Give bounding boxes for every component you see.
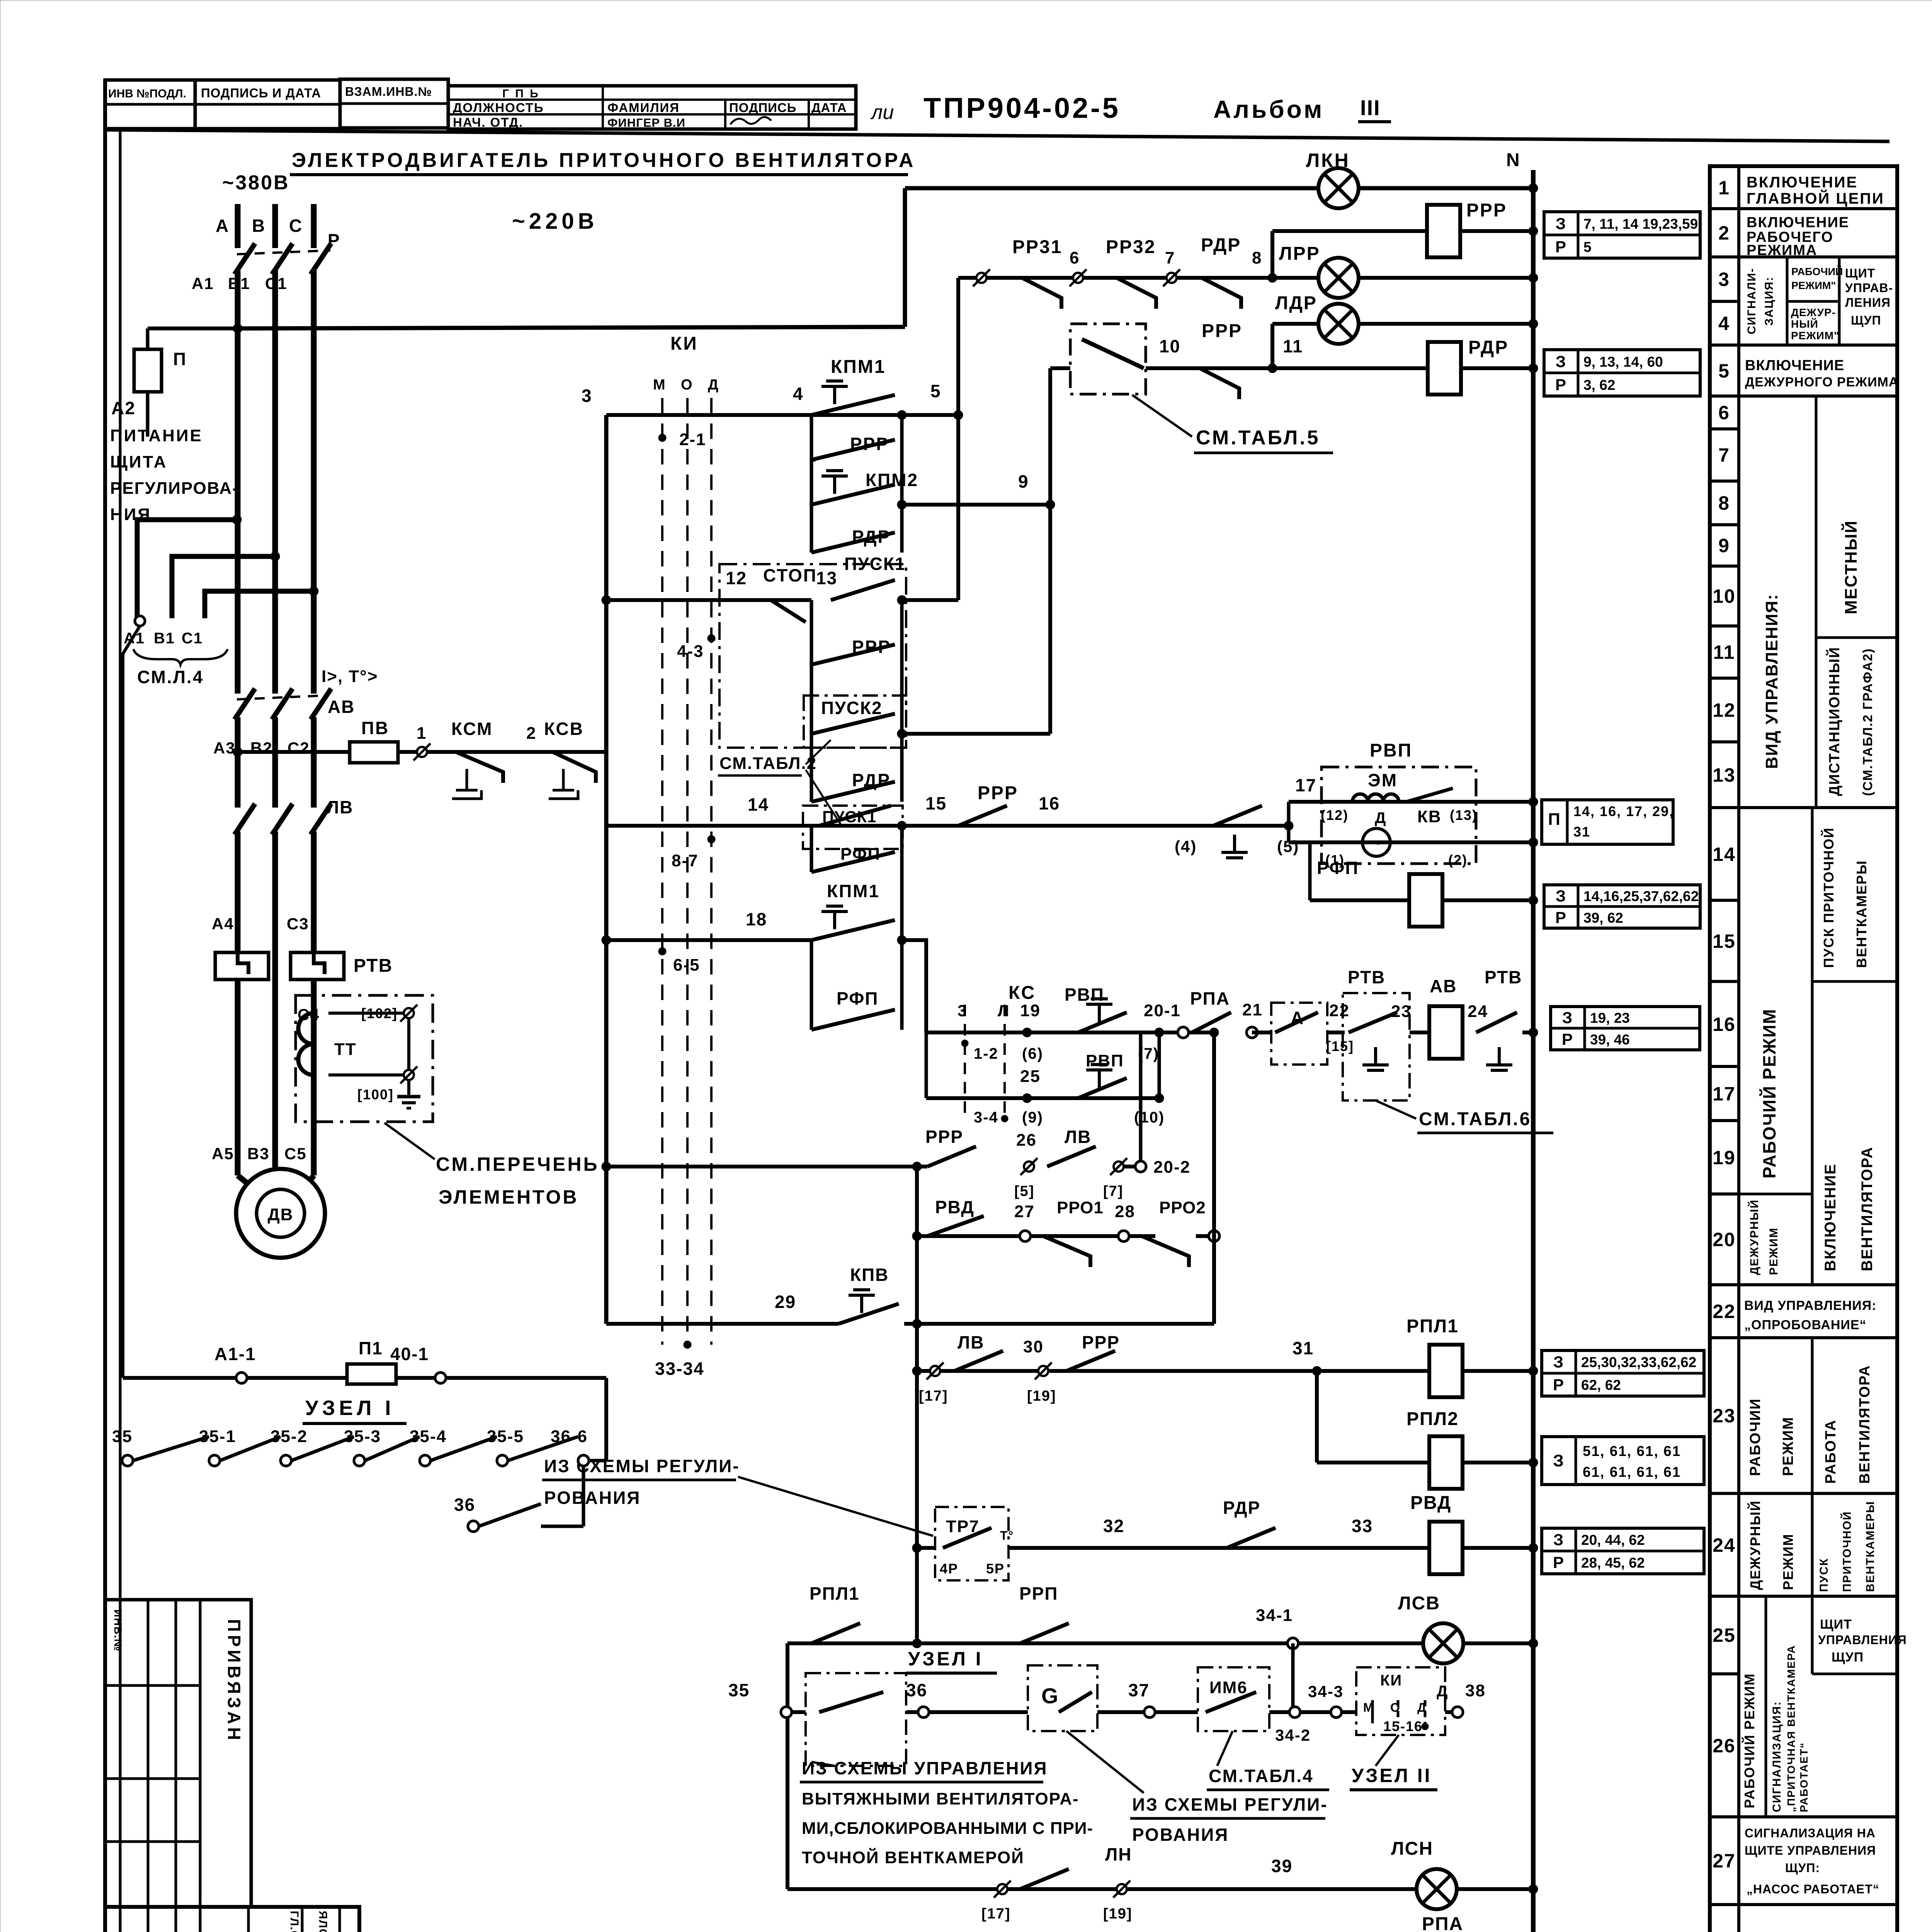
- svg-text:А4: А4: [212, 915, 234, 933]
- phase C line: [311, 270, 317, 694]
- svg-text:Р: Р: [1553, 1376, 1565, 1394]
- svg-text:16: 16: [1039, 793, 1060, 813]
- узел2 М tick: [1371, 1700, 1374, 1723]
- wire row 34-1: [787, 1641, 1533, 1645]
- pushbutton КПВ: [860, 1295, 863, 1313]
- svg-text:ВЕНТИЛЯТОРА: ВЕНТИЛЯТОРА: [1857, 1365, 1873, 1484]
- svg-text:[102]: [102]: [361, 1005, 398, 1021]
- wire row 14: [606, 824, 1289, 828]
- wire row ПУСК2 right: [902, 732, 1050, 736]
- sig rows14-20 block: [1739, 1283, 1897, 1286]
- svg-text:РВД: РВД: [935, 1197, 975, 1217]
- signal table row 12 divider and number: [1710, 677, 1739, 680]
- svg-text:ВКЛЮЧЕНИЕ: ВКЛЮЧЕНИЕ: [1745, 357, 1844, 374]
- wire row СТОП right: [902, 598, 958, 602]
- svg-text:М: М: [1363, 1701, 1374, 1714]
- wire row СТОП: [606, 598, 811, 602]
- junction N ЛРР: [1529, 273, 1538, 282]
- svg-text:ИЗ СХЕМЫ УПРАВЛЕНИЯ: ИЗ СХЕМЫ УПРАВЛЕНИЯ: [802, 1758, 1048, 1778]
- contact РРР 10-11: [1200, 368, 1239, 399]
- junction N РФП: [1529, 896, 1538, 905]
- svg-text:35-1: 35-1: [199, 1427, 236, 1446]
- wire 26 to 20-2: [1124, 1165, 1141, 1168]
- svg-text:9: 9: [1718, 535, 1730, 556]
- svg-text:ЩУП:: ЩУП:: [1785, 1861, 1820, 1875]
- signal table row 17 divider and number: [1710, 1065, 1739, 1068]
- dash box ПУСК1 второй: [803, 806, 903, 849]
- КСВ bracket symbol: [549, 769, 578, 799]
- svg-text:ДАТА: ДАТА: [811, 100, 847, 115]
- contact ПУСК2: [811, 714, 895, 734]
- current transformer box: [296, 995, 433, 1122]
- junction row18: [897, 935, 906, 945]
- svg-text:4Р: 4Р: [940, 1561, 958, 1577]
- svg-text:ВКЛЮЧЕНИЕ: ВКЛЮЧЕНИЕ: [1747, 214, 1849, 231]
- svg-text:15: 15: [925, 793, 947, 813]
- contact РРР loop1: [811, 440, 895, 460]
- svg-text:СТОП: СТОП: [763, 565, 817, 585]
- wire ЭМ line: [1289, 800, 1533, 804]
- terminal [7]: [1114, 1162, 1124, 1172]
- svg-text:9, 13, 14, 60: 9, 13, 14, 60: [1583, 354, 1663, 370]
- loop riser ПУСК2: [810, 665, 813, 734]
- junction N AKN: [1529, 184, 1538, 193]
- svg-text:РОВАНИЯ: РОВАНИЯ: [1132, 1825, 1229, 1845]
- svg-text:ВКЛЮЧЕНИЕ: ВКЛЮЧЕНИЕ: [1747, 174, 1858, 191]
- svg-text:(4): (4): [1175, 837, 1197, 855]
- wire riser 9 down: [1048, 505, 1052, 734]
- bus 3 left rail: [604, 415, 609, 1324]
- chain terminal 36-6: [578, 1455, 589, 1466]
- signal table row 22 divider and number: [1710, 1283, 1739, 1286]
- svg-text:(10): (10): [1134, 1109, 1165, 1126]
- svg-text:ПУСК ПРИТОЧНОЙ: ПУСК ПРИТОЧНОЙ: [1820, 827, 1837, 968]
- svg-text:35: 35: [728, 1680, 750, 1700]
- terminal 34-1: [1287, 1638, 1298, 1649]
- wire riser 341 left: [786, 1643, 789, 1889]
- svg-text:39, 62: 39, 62: [1583, 910, 1623, 926]
- terminal [19] row39: [1117, 1884, 1127, 1894]
- узел2 О tick: [1397, 1700, 1400, 1723]
- stamp verticals: [147, 1907, 150, 1932]
- svg-text:КПМ1: КПМ1: [827, 881, 880, 901]
- svg-text:[5]: [5]: [1014, 1183, 1034, 1199]
- svg-text:А2: А2: [111, 398, 136, 418]
- fuse П branch wire upper: [146, 328, 150, 349]
- svg-text:ЛСН: ЛСН: [1391, 1838, 1433, 1859]
- tap line 3: [205, 591, 314, 618]
- svg-text:Р: Р: [1555, 238, 1567, 256]
- svg-text:ЛВ: ЛВ: [327, 797, 354, 817]
- svg-text:РДР: РДР: [1468, 337, 1509, 358]
- svg-text:С: С: [289, 216, 303, 236]
- sig row2 box: [1739, 255, 1897, 259]
- dash box А: [1271, 1003, 1327, 1065]
- terminal 34-2: [1289, 1707, 1300, 1718]
- terminal 26: [1024, 1162, 1034, 1172]
- pushbutton КПМ1 row18: [833, 912, 836, 929]
- svg-text:(2): (2): [1448, 852, 1468, 868]
- fuse ПВ: [350, 742, 398, 763]
- header box ВЗАМ.ИНВ.№: [340, 79, 448, 128]
- svg-text:В1: В1: [154, 630, 175, 647]
- junction N ЛВ: [1529, 1028, 1538, 1037]
- wire riser 11 to ЛДР: [1270, 324, 1274, 368]
- wire row 39: [787, 1887, 1533, 1891]
- svg-text:Д: Д: [1417, 1701, 1427, 1714]
- svg-text:ПОДПИСЬ: ПОДПИСЬ: [729, 100, 796, 115]
- wire row ПВ КСМ КСВ: [238, 750, 606, 754]
- contact ЛН: [1020, 1869, 1069, 1889]
- svg-text:РАБОЧИЙ РЕЖИМ: РАБОЧИЙ РЕЖИМ: [1759, 1009, 1779, 1179]
- svg-text:ФАМИЛИЯ: ФАМИЛИЯ: [607, 100, 680, 115]
- svg-text:РРО2: РРО2: [1159, 1198, 1206, 1217]
- ref table row15 З/Р: [1544, 885, 1700, 928]
- loop РРР row4: [810, 415, 813, 460]
- svg-text:ВЕНТИЛЯТОРА: ВЕНТИЛЯТОРА: [1859, 1146, 1876, 1271]
- svg-text:22: 22: [1713, 1301, 1736, 1322]
- svg-text:39: 39: [1271, 1856, 1293, 1876]
- bus N: [1531, 170, 1536, 1932]
- svg-text:(12): (12): [1321, 807, 1349, 823]
- svg-text:6: 6: [1070, 248, 1080, 267]
- relay coil РПЛ1: [1429, 1345, 1463, 1397]
- svg-text:М: М: [653, 377, 666, 393]
- svg-text:РР31: РР31: [1012, 237, 1062, 257]
- wire row 32: [917, 1546, 1533, 1550]
- svg-text:ЯЛОВЕЦКИЙ: ЯЛОВЕЦКИЙ: [316, 1911, 330, 1932]
- stamp main table: [105, 1907, 359, 1932]
- svg-text:ПВ: ПВ: [361, 718, 389, 738]
- contact G: [1059, 1692, 1092, 1712]
- ЛВ blade B: [272, 804, 293, 835]
- chain contact after 35-4: [430, 1437, 497, 1461]
- svg-text:ПУСК2: ПУСК2: [821, 698, 883, 718]
- note УЗЕЛ II: [1376, 1735, 1399, 1766]
- contact ПУСК1 второй: [819, 806, 891, 826]
- breaker blade A: [235, 243, 255, 274]
- chain terminal 35-1: [209, 1455, 220, 1466]
- terminal 36: [918, 1707, 929, 1718]
- svg-text:23: 23: [1713, 1405, 1736, 1427]
- svg-text:ИЗ СХЕМЫ РЕГУЛИ-: ИЗ СХЕМЫ РЕГУЛИ-: [544, 1456, 740, 1476]
- wire riser 2373: [915, 1167, 919, 1643]
- svg-text:РОВАНИЯ: РОВАНИЯ: [544, 1488, 641, 1508]
- sig rows3-4 block: [1739, 344, 1897, 347]
- svg-text:14: 14: [1713, 844, 1736, 865]
- contact РДР: [1202, 278, 1241, 309]
- relay coil РФП: [1409, 874, 1442, 927]
- wire row 18: [606, 938, 811, 942]
- signal table frame: [1710, 166, 1897, 1932]
- svg-text:ГЛ.СПЕЦ.: ГЛ.СПЕЦ.: [288, 1911, 301, 1932]
- TT primary loops: [298, 1013, 314, 1075]
- leader СМ.ТАБЛ.2 b: [806, 770, 842, 827]
- wire РФП drop: [1308, 842, 1312, 900]
- svg-text:КПМ1: КПМ1: [831, 357, 886, 377]
- svg-text:[19]: [19]: [1027, 1388, 1056, 1404]
- timer РВП contact row14: [1233, 835, 1236, 852]
- svg-text:РАБОТАЕТ“: РАБОТАЕТ“: [1798, 1742, 1810, 1812]
- svg-text:ЩУП: ЩУП: [1832, 1650, 1864, 1665]
- svg-text:2: 2: [1718, 222, 1730, 244]
- svg-text:19: 19: [1713, 1147, 1736, 1168]
- TT secondary wire upper: [328, 1012, 409, 1015]
- svg-text:35-2: 35-2: [270, 1427, 308, 1446]
- signal table row 16 divider and number: [1710, 980, 1739, 983]
- signal table row 25 divider and number: [1710, 1595, 1739, 1598]
- dashed line Д: [710, 398, 713, 1345]
- wire row 4: [606, 413, 958, 417]
- svg-text:G: G: [1041, 1684, 1059, 1708]
- svg-text:31: 31: [1293, 1338, 1314, 1358]
- junction 17: [1284, 821, 1293, 830]
- svg-text:А5: А5: [212, 1145, 234, 1163]
- chain terminal 35-2: [281, 1455, 291, 1466]
- svg-text:25,30,32,33,62,62: 25,30,32,33,62,62: [1581, 1354, 1696, 1370]
- svg-text:РПА: РПА: [1190, 988, 1230, 1009]
- phase C line 2: [311, 717, 317, 808]
- svg-text:11: 11: [1283, 336, 1303, 356]
- svg-text:1: 1: [1718, 177, 1730, 199]
- svg-text:ДВ: ДВ: [267, 1205, 293, 1224]
- svg-text:33-34: 33-34: [655, 1359, 704, 1379]
- svg-text:[100]: [100]: [357, 1087, 394, 1102]
- svg-text:СИГНАЛИЗАЦИЯ:: СИГНАЛИЗАЦИЯ:: [1770, 1701, 1783, 1812]
- loop РДР2: [810, 734, 813, 802]
- svg-text:N: N: [1506, 150, 1520, 170]
- svg-text:ВЗАМ.ИНВ.№: ВЗАМ.ИНВ.№: [345, 85, 432, 99]
- junction 13r: [897, 595, 906, 605]
- svg-text:ВИД УПРАВЛЕНИЯ:: ВИД УПРАВЛЕНИЯ:: [1744, 1298, 1876, 1313]
- signal table row 27 divider and number: [1710, 1815, 1739, 1818]
- phase A top stub: [235, 204, 241, 248]
- svg-text:Л: Л: [998, 1002, 1010, 1020]
- tap line 2: [172, 556, 275, 618]
- svg-text:МИ,СБЛОКИРОВАННЫМИ С ПРИ-: МИ,СБЛОКИРОВАННЫМИ С ПРИ-: [802, 1819, 1093, 1838]
- svg-text:51, 61, 61, 61: 51, 61, 61, 61: [1583, 1443, 1681, 1459]
- fuse П body: [134, 349, 162, 392]
- stamp upper table: [105, 1600, 251, 1907]
- svg-text:5Р: 5Р: [986, 1561, 1005, 1577]
- timer РВП 25: [1098, 1070, 1101, 1088]
- contact РПЛ1 row341: [811, 1623, 860, 1643]
- svg-text:ЛДР: ЛДР: [1275, 293, 1317, 313]
- svg-text:2: 2: [526, 724, 536, 743]
- svg-text:СМ.ТАБЛ.6: СМ.ТАБЛ.6: [1419, 1109, 1531, 1129]
- svg-text:В3: В3: [247, 1145, 270, 1163]
- contact РР32: [1117, 278, 1156, 309]
- wire row 35: [792, 1710, 1458, 1714]
- wire А to РТВ: [1327, 1031, 1345, 1034]
- svg-text:62, 62: 62, 62: [1581, 1377, 1621, 1393]
- junction 8: [1268, 273, 1277, 282]
- phase B top stub: [272, 204, 278, 248]
- svg-text:З: З: [1553, 1451, 1565, 1470]
- breaker АВ blade A: [235, 689, 255, 719]
- junction 25: [1022, 1094, 1032, 1103]
- signal table row 10 divider and number: [1710, 565, 1739, 568]
- junction 2373 end: [912, 1639, 922, 1648]
- leader СМ.ТАБЛ.2 a: [806, 740, 831, 764]
- svg-text:ПИТАНИЕ: ПИТАНИЕ: [110, 426, 203, 445]
- svg-text:КСМ: КСМ: [451, 719, 493, 739]
- svg-text:РПЛ1: РПЛ1: [810, 1583, 860, 1604]
- chain terminal 35: [122, 1455, 133, 1466]
- dash box ТР7: [935, 1507, 1009, 1580]
- svg-text:РЕЖИМ": РЕЖИМ": [1791, 330, 1839, 342]
- brace СМ.Л.4: [133, 649, 228, 665]
- terminal 21l: [1178, 1027, 1189, 1038]
- contact РРР loop2: [811, 645, 895, 665]
- fuse П1: [347, 1364, 396, 1384]
- wire riser 20-2: [1139, 1032, 1143, 1161]
- svg-text:35-5: 35-5: [487, 1427, 524, 1446]
- svg-text:ПУСК: ПУСК: [1818, 1558, 1830, 1592]
- svg-text:ЛВ: ЛВ: [957, 1332, 985, 1352]
- КСМ bracket symbol: [452, 769, 481, 799]
- svg-text:ВЕНТКАМЕРЫ: ВЕНТКАМЕРЫ: [1854, 860, 1869, 968]
- svg-text:ДЕЖУРНЫЙ: ДЕЖУРНЫЙ: [1747, 1500, 1763, 1590]
- svg-text:РАБОЧИЙ РЕЖИМ: РАБОЧИЙ РЕЖИМ: [1741, 1673, 1757, 1808]
- chain contact after 35: [133, 1437, 209, 1461]
- signal table row 20 divider and number: [1710, 1192, 1739, 1196]
- svg-text:7: 7: [1718, 444, 1730, 466]
- ref table row16 З/Р: [1551, 1007, 1700, 1050]
- chain contact after 35-2: [291, 1437, 354, 1461]
- svg-text:[15]: [15]: [1326, 1038, 1354, 1054]
- wire riser 25: [1158, 1032, 1161, 1098]
- svg-text:ЩИТА: ЩИТА: [110, 452, 167, 471]
- sig row27 box: [1739, 1903, 1897, 1906]
- svg-text:ВИД УПРАВЛЕНИЯ:: ВИД УПРАВЛЕНИЯ:: [1762, 594, 1781, 769]
- motor lead C: [302, 1175, 314, 1192]
- contact РРР row30: [1066, 1351, 1115, 1371]
- contact РФП lower: [811, 1010, 895, 1030]
- signal table row 23 divider and number: [1710, 1336, 1739, 1339]
- wire riser 34-1 down: [1291, 1643, 1295, 1712]
- wire row PP31: [958, 276, 1272, 280]
- wire riser 17 up: [1287, 802, 1291, 826]
- dash box УЗЕЛ II: [1356, 1667, 1445, 1735]
- terminal [17] row30: [930, 1366, 940, 1376]
- svg-text:31: 31: [1573, 824, 1590, 840]
- svg-text:3: 3: [957, 1002, 967, 1020]
- contact box1: [819, 1692, 883, 1712]
- svg-text:УЗЕЛ I: УЗЕЛ I: [908, 1648, 983, 1670]
- svg-text:Альбом: Альбом: [1213, 95, 1324, 123]
- heater РТВ phase C: [291, 952, 344, 980]
- pushbutton КПМ2: [833, 476, 836, 494]
- breaker blade B: [272, 243, 293, 274]
- terminal 38: [1452, 1707, 1463, 1718]
- terminal 20-2: [1135, 1161, 1146, 1172]
- wire 20-1 to РПА: [1159, 1031, 1214, 1034]
- dashed КС 3: [964, 1005, 966, 1117]
- svg-text:27: 27: [1014, 1202, 1035, 1221]
- svg-text:А: А: [216, 216, 229, 236]
- svg-text:АВ: АВ: [328, 697, 355, 717]
- contact РРР row26: [927, 1146, 976, 1167]
- sig row5 box: [1739, 395, 1897, 398]
- junction 9: [1046, 500, 1055, 509]
- svg-text:40-1: 40-1: [390, 1344, 429, 1364]
- wire row 29: [606, 1322, 838, 1326]
- svg-text:ЛСВ: ЛСВ: [1398, 1593, 1440, 1614]
- phase A line 3: [235, 832, 241, 1175]
- svg-text:(СМ.ТАБЛ.2 ГРАФА2): (СМ.ТАБЛ.2 ГРАФА2): [1861, 648, 1875, 796]
- wire riser row4 to PP31: [956, 278, 960, 415]
- junction N ЛСВ: [1529, 1639, 1538, 1648]
- svg-text:7: 7: [1165, 248, 1175, 267]
- svg-text:13: 13: [816, 568, 837, 588]
- breaker АВ blade B: [272, 689, 293, 719]
- svg-text:РПЛ2: РПЛ2: [1406, 1409, 1459, 1429]
- loop КС lower: [925, 1032, 928, 1098]
- svg-text:4: 4: [793, 384, 804, 404]
- svg-text:8-7: 8-7: [672, 851, 699, 870]
- svg-text:32: 32: [1103, 1516, 1124, 1536]
- svg-text:З: З: [1553, 1531, 1564, 1549]
- terminal 27: [1020, 1231, 1031, 1242]
- junction 20-1: [1155, 1028, 1164, 1037]
- signal table row 14 divider and number: [1710, 806, 1739, 809]
- signal table row 24 divider and number: [1710, 1492, 1739, 1495]
- svg-text:РФП: РФП: [837, 988, 878, 1009]
- dash box СТОП ПУСК1: [719, 564, 906, 748]
- svg-text:О: О: [1390, 1701, 1401, 1714]
- svg-text:А1: А1: [192, 274, 214, 293]
- contact КСМ: [456, 752, 503, 783]
- wire row29 right: [904, 1322, 1214, 1326]
- loop РФП lower: [810, 940, 813, 1030]
- leader to СМ.ПЕРЕЧЕНЬ: [384, 1123, 435, 1159]
- dash box ПУСК2: [804, 696, 906, 748]
- junction 5 right: [897, 410, 906, 420]
- contact РР31: [1022, 278, 1061, 309]
- svg-text:30: 30: [1023, 1337, 1044, 1356]
- lamp ЛСН: [1417, 1869, 1457, 1909]
- contact КВ: [1406, 788, 1453, 802]
- узел2 Д tick: [1424, 1700, 1427, 1723]
- ref table row23a З/Р: [1542, 1350, 1704, 1396]
- svg-text:СМ.ПЕРЕЧЕНЬ: СМ.ПЕРЕЧЕНЬ: [436, 1153, 599, 1175]
- wire РРР coil line: [1272, 229, 1533, 233]
- svg-text:РР32: РР32: [1106, 237, 1156, 257]
- svg-text:Р: Р: [1562, 1030, 1573, 1048]
- sheet frame left border outer: [103, 79, 107, 1932]
- svg-text:П: П: [173, 349, 187, 369]
- svg-text:СИГНАЛИ-: СИГНАЛИ-: [1745, 268, 1758, 335]
- svg-text:34-2: 34-2: [1275, 1726, 1311, 1744]
- wire line A feed: [148, 327, 240, 330]
- svg-text:6-5: 6-5: [673, 956, 700, 975]
- contact РТВ left: [1349, 1012, 1397, 1032]
- svg-text:РАБОЧИИ: РАБОЧИИ: [1747, 1398, 1764, 1476]
- svg-text:5: 5: [1718, 360, 1730, 382]
- svg-text:СМ.Л.4: СМ.Л.4: [137, 667, 204, 687]
- svg-text:П1: П1: [359, 1338, 383, 1358]
- wire to N ЛВ: [1522, 1031, 1533, 1034]
- terminal 35: [781, 1707, 792, 1718]
- ЛВ blade C: [311, 804, 331, 835]
- ref table П row14: [1542, 800, 1673, 844]
- terminal 37: [1144, 1707, 1155, 1718]
- svg-text:12: 12: [1713, 699, 1736, 721]
- dashed line О: [686, 398, 689, 1345]
- svg-text:П: П: [1548, 810, 1561, 829]
- svg-text:РРО1: РРО1: [1057, 1198, 1104, 1217]
